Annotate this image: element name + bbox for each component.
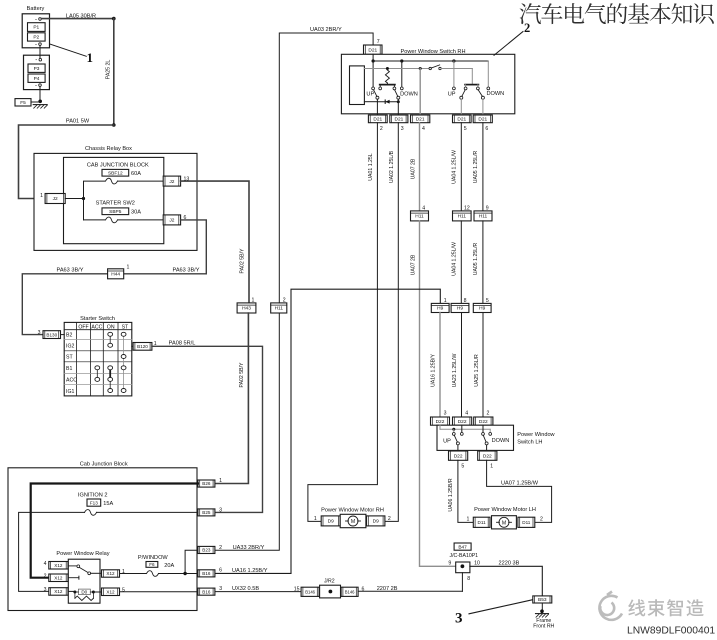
- svg-text:D22: D22: [436, 419, 445, 425]
- contact bar right: [465, 84, 478, 86]
- svg-text:Switch LH: Switch LH: [517, 440, 542, 446]
- connector B23: [198, 546, 215, 553]
- svg-text:D22: D22: [483, 453, 492, 459]
- svg-text:LNW89DLF000401: LNW89DLF000401: [627, 626, 715, 637]
- wire UA07 2B inside switch: [419, 69, 421, 116]
- contacts: [372, 87, 375, 90]
- svg-text:SBP5: SBP5: [109, 209, 122, 215]
- wire 2207 2B to JC pin8: [461, 573, 463, 592]
- svg-text:2: 2: [540, 517, 543, 523]
- svg-text:D22: D22: [458, 419, 467, 425]
- svg-text:6: 6: [219, 568, 222, 574]
- svg-text:X12: X12: [106, 571, 115, 576]
- watermark text: [628, 599, 645, 616]
- svg-text:Power Window Motor RH: Power Window Motor RH: [321, 508, 384, 514]
- svg-text:D21: D21: [478, 117, 487, 123]
- wire battery series link: [39, 46, 41, 59]
- svg-text:B146: B146: [305, 590, 315, 595]
- svg-text:3: 3: [38, 330, 41, 336]
- fuse P1: [28, 23, 46, 32]
- connector D21 pin2: [368, 115, 387, 123]
- svg-text:4: 4: [44, 561, 47, 567]
- svg-text:ST: ST: [66, 355, 73, 361]
- connector H11 pin2: [271, 303, 287, 313]
- DOWN switch LH unit: [485, 442, 488, 445]
- connector D21 pin6: [473, 115, 492, 123]
- svg-text:UA07 1.25B/W: UA07 1.25B/W: [501, 481, 539, 487]
- wire PA02 5B/Y upper: [181, 181, 249, 303]
- svg-text:1: 1: [219, 478, 222, 484]
- connector H43: [237, 303, 256, 313]
- svg-text:12: 12: [464, 205, 470, 211]
- connector X12 pin3: [49, 588, 68, 596]
- svg-text:3: 3: [401, 126, 404, 132]
- svg-text:J/R2: J/R2: [324, 578, 335, 584]
- svg-text:3: 3: [455, 611, 463, 627]
- svg-text:UA07 2B: UA07 2B: [410, 254, 416, 275]
- svg-text:J2: J2: [53, 196, 58, 202]
- svg-text:B146: B146: [345, 590, 355, 595]
- connector J2 pin13: [163, 176, 180, 186]
- connector X12 pin1: [102, 570, 120, 577]
- connector H9 pin1: [431, 303, 449, 312]
- wires inside LH switch: [439, 425, 441, 429]
- svg-text:X12: X12: [54, 576, 63, 581]
- svg-text:D9: D9: [328, 519, 334, 525]
- UP switch LH-window (on RH unit): [460, 96, 463, 99]
- svg-text:PA25 2L: PA25 2L: [105, 60, 111, 80]
- svg-text:-: -: [35, 58, 37, 64]
- svg-text:2: 2: [487, 411, 490, 417]
- svg-text:D21: D21: [416, 117, 425, 123]
- junction block J/C-BA10P1: [456, 562, 470, 573]
- svg-text:Power Window Motor LH: Power Window Motor LH: [474, 507, 536, 513]
- svg-text:SBF12: SBF12: [108, 170, 123, 176]
- node battery ground junction: [38, 100, 42, 104]
- svg-text:M: M: [351, 519, 355, 525]
- connector X12 pin2: [49, 574, 68, 582]
- svg-text:D9: D9: [373, 519, 379, 525]
- svg-text:4: 4: [422, 126, 425, 132]
- svg-text:1: 1: [127, 264, 130, 270]
- wire PA02 5B/Y lower: [215, 313, 249, 484]
- svg-text:2: 2: [524, 21, 530, 35]
- illumination block: [350, 66, 365, 105]
- op switch LH box: [437, 425, 514, 450]
- svg-text:IG1: IG1: [66, 389, 74, 395]
- svg-text:H11: H11: [479, 214, 488, 220]
- svg-text:4: 4: [465, 411, 468, 417]
- svg-text:2: 2: [44, 573, 47, 579]
- svg-text:UA25 1.25L/R: UA25 1.25L/R: [474, 354, 480, 387]
- connector H9 pin8: [451, 303, 469, 312]
- connector D22 pin4: [453, 417, 472, 425]
- svg-text:DOWN: DOWN: [400, 92, 418, 98]
- svg-text:PA01 5W: PA01 5W: [66, 119, 90, 125]
- svg-text:X12: X12: [54, 589, 63, 594]
- connector B130: [43, 331, 61, 339]
- contact bar left: [380, 84, 395, 86]
- svg-text:ACC: ACC: [66, 378, 77, 384]
- svg-text:D11: D11: [478, 520, 487, 525]
- svg-text:F5: F5: [20, 100, 26, 106]
- svg-text:J/C-BA10P1: J/C-BA10P1: [450, 553, 479, 559]
- svg-text:PA08 5R/L: PA08 5R/L: [169, 340, 196, 346]
- watermark logo: [599, 592, 622, 620]
- lock switch: [429, 67, 431, 69]
- svg-text:IGNITION 2: IGNITION 2: [78, 493, 108, 499]
- fuse P2: [28, 33, 46, 41]
- connector J2 pin6: [163, 215, 180, 225]
- connector H44: [108, 269, 124, 279]
- svg-text:UA23 1.25L/W: UA23 1.25L/W: [452, 354, 458, 388]
- svg-text:D22: D22: [454, 453, 463, 459]
- svg-text:2: 2: [283, 298, 286, 304]
- svg-text:X12: X12: [106, 590, 115, 595]
- svg-text:1: 1: [87, 50, 94, 65]
- svg-text:10: 10: [474, 560, 480, 566]
- svg-text:H43: H43: [242, 306, 251, 312]
- svg-text:5: 5: [122, 588, 125, 594]
- svg-text:P/WINDOW: P/WINDOW: [138, 555, 169, 561]
- svg-text:ST: ST: [122, 324, 129, 330]
- svg-text:Starter Switch: Starter Switch: [80, 316, 115, 322]
- svg-text:6: 6: [485, 126, 488, 132]
- connector D21 pin4: [411, 115, 430, 123]
- starter switch contacts: [109, 334, 111, 345]
- svg-text:J2: J2: [169, 179, 174, 185]
- svg-text:PA63 3B/Y: PA63 3B/Y: [57, 267, 84, 273]
- svg-text:1: 1: [252, 298, 255, 304]
- connector B16 pin3: [198, 588, 215, 595]
- fuse F5: [15, 99, 31, 106]
- connector D22 pin2: [474, 417, 493, 425]
- svg-text:1: 1: [490, 463, 493, 469]
- connector B47 label: [454, 543, 471, 550]
- relay contacts: [68, 565, 77, 567]
- svg-text:UP: UP: [443, 439, 451, 445]
- svg-text:-: -: [35, 42, 37, 48]
- connector H11 pin4: [411, 211, 429, 221]
- svg-text:Power Window: Power Window: [517, 432, 555, 438]
- svg-text:J2: J2: [169, 218, 174, 224]
- svg-text:IG2: IG2: [66, 343, 74, 349]
- svg-text:B16: B16: [202, 571, 211, 576]
- svg-text:UA16 1.25B/Y: UA16 1.25B/Y: [431, 354, 437, 387]
- svg-text:DOWN: DOWN: [492, 438, 510, 444]
- svg-text:P3: P3: [34, 66, 40, 72]
- svg-text:M: M: [502, 520, 506, 526]
- callout 1: [50, 44, 86, 56]
- svg-text:2: 2: [388, 516, 391, 522]
- fuse SBF12 60A: [102, 169, 129, 176]
- svg-text:D21: D21: [457, 117, 466, 123]
- ground battery: [33, 104, 47, 106]
- svg-text:UA04 1.25L/W: UA04 1.25L/W: [452, 150, 458, 184]
- connector B16 pin6: [198, 570, 215, 577]
- fuse P3: [28, 64, 45, 72]
- wire bus 12V: [372, 54, 374, 61]
- svg-text:B2: B2: [66, 332, 72, 338]
- DOWN switch LH-window (on RH unit): [481, 96, 484, 99]
- svg-text:PA02 5B/Y: PA02 5B/Y: [240, 248, 246, 274]
- connector H9 pin5: [473, 303, 491, 312]
- svg-text:Power Window Switch RH: Power Window Switch RH: [401, 49, 466, 55]
- svg-text:UA02 1.25L/B: UA02 1.25L/B: [389, 150, 395, 183]
- svg-text:9: 9: [448, 560, 451, 566]
- connector D21 pin5: [453, 115, 472, 123]
- svg-text:B16: B16: [202, 589, 211, 594]
- connector B25: [198, 509, 215, 516]
- svg-text:B130: B130: [46, 332, 57, 337]
- connector D22 pin1: [478, 451, 497, 460]
- ground frame front RH: [536, 613, 549, 615]
- svg-text:ON: ON: [107, 324, 115, 330]
- svg-text:DOWN: DOWN: [486, 91, 504, 97]
- svg-text:7: 7: [377, 39, 380, 45]
- svg-text:STARTER SW2: STARTER SW2: [96, 200, 135, 206]
- svg-text:15A: 15A: [103, 501, 113, 507]
- svg-text:H44: H44: [111, 272, 120, 278]
- connector B53: [533, 596, 552, 603]
- svg-text:B53: B53: [538, 597, 547, 603]
- svg-text:H11: H11: [275, 306, 284, 312]
- svg-text:X12: X12: [54, 563, 63, 568]
- op switch RH box: [341, 54, 514, 114]
- svg-text:P4: P4: [34, 76, 40, 82]
- connector D21 pin7: [364, 45, 383, 54]
- svg-text:8: 8: [467, 576, 470, 582]
- svg-text:D21: D21: [368, 47, 377, 53]
- svg-text:PA63 3B/Y: PA63 3B/Y: [173, 267, 200, 273]
- resistor RH illumination: [385, 70, 389, 83]
- svg-text:B26: B26: [202, 481, 211, 486]
- fuse SBP5 30A: [102, 208, 129, 215]
- connector H11 pin12: [453, 211, 472, 221]
- svg-text:B120: B120: [137, 344, 148, 349]
- DOWN switch RH-window: [397, 96, 400, 99]
- svg-text:5: 5: [464, 126, 467, 132]
- connector X12 pin5: [102, 588, 120, 596]
- svg-text:UA05 1.25L/R: UA05 1.25L/R: [473, 242, 479, 275]
- connector D22 pin5: [449, 451, 468, 460]
- svg-text:UA03 2BR/Y: UA03 2BR/Y: [310, 27, 342, 33]
- node LA05/PA25 junction: [112, 17, 116, 21]
- svg-text:F13: F13: [90, 500, 98, 505]
- svg-text:H11: H11: [458, 214, 467, 220]
- svg-text:UA07 2B: UA07 2B: [410, 158, 416, 179]
- svg-text:Front RH: Front RH: [533, 624, 554, 630]
- svg-text:5: 5: [461, 463, 464, 469]
- svg-text:30A: 30A: [131, 210, 141, 216]
- svg-text:3: 3: [444, 411, 447, 417]
- svg-text:H9: H9: [437, 306, 443, 312]
- svg-text:H9: H9: [457, 306, 463, 312]
- svg-text:PA02 5B/Y: PA02 5B/Y: [239, 362, 245, 388]
- callout 3: [469, 600, 532, 614]
- connector H11 pin9: [474, 211, 492, 221]
- svg-text:H9: H9: [479, 306, 485, 312]
- svg-text:60A: 60A: [131, 171, 141, 177]
- svg-text:UP: UP: [366, 92, 374, 98]
- wire inside relay box: [65, 198, 83, 200]
- svg-text:Chassis Relay Box: Chassis Relay Box: [85, 146, 132, 152]
- svg-text:CAB JUNCTION BLOCK: CAB JUNCTION BLOCK: [87, 162, 149, 168]
- connector X12 pin4: [49, 562, 68, 570]
- svg-text:UA06 1.25B/R: UA06 1.25B/R: [448, 478, 454, 511]
- svg-text:2: 2: [380, 126, 383, 132]
- wire ground bus grey: [364, 68, 429, 70]
- svg-text:15: 15: [294, 586, 300, 592]
- connector D22 pin3: [431, 417, 450, 425]
- svg-text:B1: B1: [66, 366, 72, 372]
- svg-text:-: -: [35, 17, 37, 23]
- svg-text:D22: D22: [479, 419, 488, 425]
- svg-text:9: 9: [486, 205, 489, 211]
- svg-text:3: 3: [219, 507, 222, 513]
- svg-text:UA04 1.25L/W: UA04 1.25L/W: [452, 242, 458, 276]
- svg-text:-: -: [35, 83, 37, 89]
- connector B120: [132, 345, 133, 347]
- svg-text:P1: P1: [33, 25, 39, 31]
- svg-text:H11: H11: [415, 214, 424, 220]
- UP switch LH unit: [456, 442, 459, 445]
- svg-text:1: 1: [40, 193, 43, 199]
- svg-text:P2: P2: [33, 35, 39, 41]
- svg-text:OFF: OFF: [78, 324, 88, 330]
- node PA25/PA01 junction: [112, 123, 116, 127]
- diode: [364, 101, 377, 103]
- connector J2 pin1: [45, 194, 65, 204]
- svg-text:B47: B47: [458, 544, 467, 550]
- svg-text:UA01 1.25L: UA01 1.25L: [368, 153, 374, 181]
- title chinese: [520, 3, 541, 24]
- svg-text:4: 4: [422, 205, 425, 211]
- connector D21 pin3: [390, 115, 408, 123]
- fuse P4: [28, 74, 45, 82]
- svg-text:Cab Junction Block: Cab Junction Block: [80, 461, 128, 467]
- svg-text:1: 1: [467, 517, 470, 523]
- svg-text:2220 3B: 2220 3B: [499, 560, 520, 566]
- svg-text:5: 5: [486, 298, 489, 304]
- svg-text:ACC: ACC: [91, 324, 102, 330]
- svg-text:UP: UP: [448, 91, 456, 97]
- svg-text:3: 3: [44, 587, 47, 593]
- svg-text:20A: 20A: [164, 563, 174, 569]
- svg-text:2: 2: [219, 545, 222, 551]
- connector B26: [198, 480, 215, 487]
- wire B26 feed thick: [31, 484, 198, 578]
- relay coil: [68, 590, 75, 592]
- svg-text:F6: F6: [149, 562, 155, 567]
- svg-text:D0: D0: [81, 589, 87, 594]
- svg-text:1: 1: [444, 298, 447, 304]
- svg-text:UA05 1.25L/R: UA05 1.25L/R: [473, 150, 479, 183]
- wire PA63 3B/Y: [124, 220, 207, 274]
- svg-text:B25: B25: [202, 510, 211, 515]
- svg-text:Power Window Relay: Power Window Relay: [56, 551, 109, 557]
- UP switch RH-window: [376, 96, 379, 99]
- svg-text:1: 1: [314, 516, 317, 522]
- svg-text:D21: D21: [394, 117, 403, 123]
- svg-text:B23: B23: [202, 548, 211, 553]
- callout 2: [494, 32, 523, 56]
- svg-text:D11: D11: [522, 520, 531, 525]
- svg-text:Battery: Battery: [27, 6, 45, 12]
- svg-text:D21: D21: [373, 117, 382, 123]
- svg-text:8: 8: [464, 298, 467, 304]
